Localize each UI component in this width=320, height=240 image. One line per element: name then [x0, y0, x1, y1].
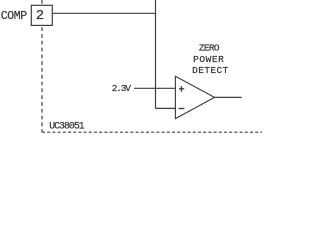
- svg-text:COMP: COMP: [1, 10, 28, 23]
- pin 2 box: [31, 5, 52, 25]
- comparator U1 zero power detect: [175, 76, 214, 118]
- wire to inverting input: [156, 107, 177, 109]
- IC boundary dashed line (bottom side): [42, 131, 262, 133]
- svg-text:DETECT: DETECT: [192, 65, 229, 76]
- svg-text:POWER: POWER: [193, 54, 224, 65]
- wire vertical net from top edge down to inverting input level: [155, 0, 157, 108]
- svg-text:2: 2: [36, 8, 44, 24]
- wire from pin 2 to vertical net: [52, 12, 156, 14]
- IC boundary dashed line (left side): [41, 0, 43, 132]
- plus sign (non-inverting input): [179, 86, 184, 92]
- minus sign (inverting input): [179, 108, 185, 110]
- output wire: [215, 96, 242, 98]
- svg-text:2.3V: 2.3V: [112, 83, 132, 94]
- svg-text:UC38051: UC38051: [49, 120, 85, 131]
- wire 2.3V reference to non-inverting input: [134, 87, 176, 89]
- svg-text:ZERO: ZERO: [199, 42, 220, 53]
